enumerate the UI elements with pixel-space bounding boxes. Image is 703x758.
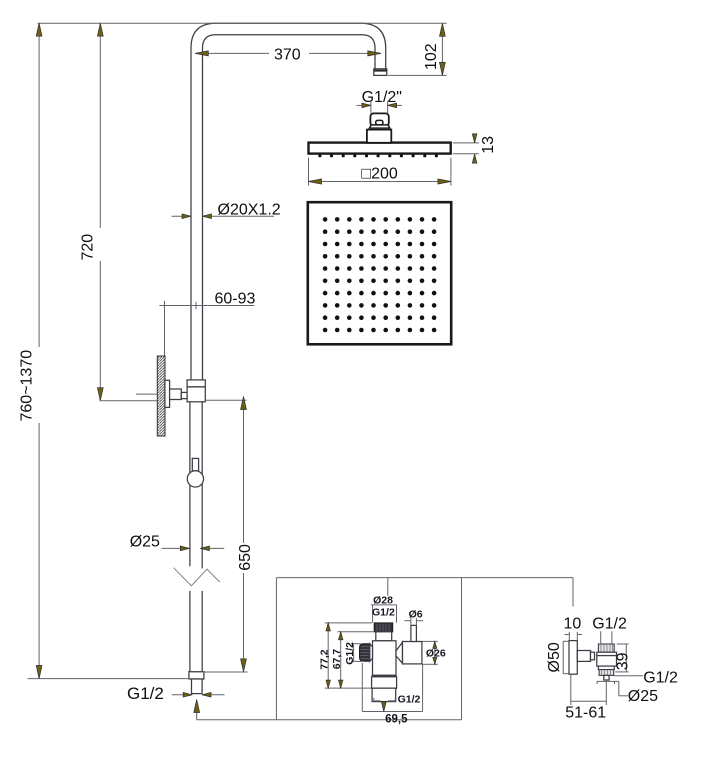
dimension O25 (elbow outlet tube) — [597, 681, 658, 705]
dimension G1/2 (elbow top) — [592, 616, 627, 644]
dimension square200 — [309, 158, 451, 186]
leader from column outlet to diverter detail — [197, 578, 573, 720]
slider clamp top — [187, 380, 205, 387]
diverter knurled cap — [374, 623, 393, 632]
diverter outlet — [372, 688, 396, 701]
column bottom G1/2 nipple — [192, 679, 203, 694]
top extension line — [38, 22, 447, 24]
nozzle dot grid 10x10 — [323, 217, 437, 332]
elbow wall flange — [569, 641, 577, 675]
elbow upper band — [597, 652, 617, 655]
bracket neck — [181, 392, 187, 398]
dimension O28 — [371, 595, 397, 623]
svg-text:G1/2: G1/2 — [398, 694, 421, 706]
dimension O50 (flange dia) — [546, 641, 568, 673]
dimension 69,5 — [362, 663, 422, 726]
connector collar — [369, 128, 390, 130]
svg-text:G1/2: G1/2 — [372, 607, 395, 619]
connector base block — [367, 130, 391, 143]
ball joint socket — [369, 125, 389, 128]
diverter body band — [372, 675, 397, 677]
slider block — [187, 387, 205, 402]
overhead shower face view square — [308, 202, 451, 344]
elbow outlet stub — [604, 675, 609, 680]
leader arrow at column outlet — [194, 700, 200, 713]
diverter body — [373, 641, 397, 675]
svg-text:370: 370 — [274, 46, 301, 63]
svg-text:77,2: 77,2 — [319, 649, 331, 670]
diverter lower body — [372, 677, 397, 688]
dimension G1/2 (diverter outlet) — [374, 698, 396, 701]
svg-text:Ø26: Ø26 — [426, 647, 446, 659]
svg-text:Ø25: Ø25 — [130, 533, 160, 550]
650 bottom extension — [190, 671, 248, 673]
dimension G1/2 (column bottom) — [127, 684, 225, 703]
elbow collar — [591, 652, 595, 660]
dimension G1/2 (elbow outlet) — [614, 669, 678, 686]
svg-text:Ø50: Ø50 — [546, 642, 563, 672]
dimension 720 — [80, 23, 104, 401]
svg-text:51-61: 51-61 — [565, 704, 606, 721]
bracket stub line — [136, 393, 158, 395]
svg-text:39: 39 — [614, 652, 631, 670]
elbow stem — [577, 651, 590, 662]
svg-text:G1/2: G1/2 — [344, 642, 356, 665]
dimension 13 (head thickness) — [453, 134, 497, 163]
overhead shower side view plate — [309, 143, 451, 154]
dimension 650 — [237, 397, 254, 672]
side view nozzle row — [318, 154, 438, 157]
dimension O20X1.2 (pipe) — [172, 202, 281, 219]
svg-text:13: 13 — [480, 136, 497, 154]
ball joint nub — [376, 120, 383, 124]
shower column riser pipe with top arch — [191, 23, 386, 380]
svg-text:Ø25: Ø25 — [628, 688, 658, 705]
svg-text:720: 720 — [80, 234, 97, 261]
diverter neck — [376, 632, 392, 641]
bracket arm — [170, 389, 182, 400]
ball joint knob — [370, 113, 388, 126]
elbow top nut — [598, 644, 614, 652]
dimension 10 (flange) — [564, 616, 582, 641]
dimension 67,7 — [331, 632, 374, 688]
svg-text:60-93: 60-93 — [215, 290, 256, 307]
diverter right cone — [396, 642, 403, 663]
bracket backplate — [165, 380, 170, 407]
hose hook stem — [192, 458, 198, 471]
diverter left cone — [370, 644, 373, 662]
column bottom fitting — [189, 672, 204, 679]
hand shower wand (pipe below slider) — [190, 402, 202, 672]
bracket centre line — [100, 400, 158, 402]
elbow bottom nut — [599, 670, 614, 676]
svg-text:102: 102 — [423, 43, 440, 70]
dimension 77,2 — [319, 623, 372, 688]
diverter O6 tube — [411, 625, 417, 641]
svg-text:760~1370: 760~1370 — [19, 350, 36, 422]
dimension 51-61 — [565, 674, 606, 721]
elbow lower band — [598, 666, 614, 670]
dimension 39 (union height) — [614, 644, 631, 672]
svg-text:Ø20X1.2: Ø20X1.2 — [218, 202, 281, 219]
dimension 60-93 (bracket range) — [159, 290, 255, 355]
diverter right cylinder — [403, 642, 422, 664]
pipe break symbol — [174, 568, 220, 586]
elbow body — [597, 656, 617, 667]
svg-text:67,7: 67,7 — [331, 649, 343, 670]
svg-text:G1/2: G1/2 — [127, 684, 164, 703]
dimension 370 — [195, 46, 380, 63]
svg-text:G1/2: G1/2 — [643, 669, 678, 686]
hose hook knob (circle) — [187, 471, 203, 487]
dimension 760~1370 — [19, 23, 43, 678]
svg-text:10: 10 — [564, 616, 582, 633]
svg-text:G1/2: G1/2 — [592, 616, 627, 633]
dimension 102 — [388, 23, 447, 75]
diverter left knob (knurled) — [360, 644, 370, 662]
svg-text:650: 650 — [237, 544, 254, 571]
svg-text:69,5: 69,5 — [385, 714, 408, 726]
dimension O25 (wand) — [130, 533, 225, 550]
dimension G1/2 inch (arm thread) — [357, 89, 402, 114]
shower arm end fitting — [374, 69, 387, 76]
bottom extension line 760~1370 — [28, 678, 201, 680]
wall bracket hatched plate — [157, 356, 165, 436]
svg-text:□200: □200 — [361, 165, 397, 182]
dimension O6 — [404, 608, 423, 625]
dimension O26 — [423, 641, 446, 664]
dimension G1/2 (left knob) — [344, 642, 364, 665]
